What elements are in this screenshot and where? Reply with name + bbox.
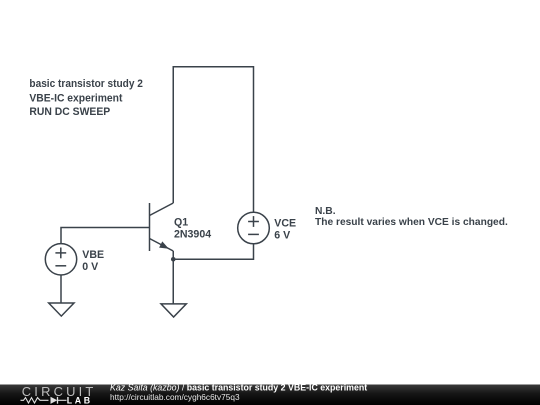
wire collector loop — [173, 67, 253, 213]
svg-text:http://circuitlab.com/cygh6c6t: http://circuitlab.com/cygh6c6tv75q3 — [110, 392, 240, 402]
ground left — [49, 303, 74, 316]
node emitter junction — [171, 257, 176, 262]
voltage source VCE — [238, 212, 270, 244]
svg-text:The result varies when VCE is: The result varies when VCE is changed. — [315, 217, 508, 228]
svg-text:VCE: VCE — [274, 218, 296, 230]
svg-text:basic transistor study 2: basic transistor study 2 — [29, 78, 143, 90]
wire emitter to ground — [172, 251, 174, 304]
voltage source VBE — [45, 244, 76, 275]
svg-text:6 V: 6 V — [274, 230, 290, 242]
label VCE value — [274, 218, 296, 242]
footer credit line — [110, 383, 367, 402]
annotation text NB — [315, 206, 508, 228]
label VBE value — [82, 249, 104, 273]
label Q1 value — [174, 217, 211, 241]
svg-text:VBE-IC experiment: VBE-IC experiment — [29, 92, 122, 104]
footer bar — [0, 385, 540, 405]
logo LAB — [67, 396, 93, 405]
svg-text:0 V: 0 V — [82, 261, 98, 273]
wire VBE top to base — [61, 228, 150, 244]
logo diode — [51, 397, 67, 404]
wire VBE bottom — [60, 275, 62, 303]
ground middle — [161, 304, 186, 317]
wire VCE bottom to node — [173, 244, 253, 259]
svg-text:RUN DC SWEEP: RUN DC SWEEP — [29, 106, 110, 118]
svg-text:Q1: Q1 — [174, 217, 188, 229]
logo CIRCUIT — [22, 384, 97, 399]
transistor Q1 — [150, 203, 174, 251]
svg-text:VBE: VBE — [82, 249, 104, 261]
svg-text:N.B.: N.B. — [315, 206, 336, 217]
logo resistor zigzag — [21, 398, 49, 403]
annotation text title — [29, 78, 143, 118]
svg-text:2N3904: 2N3904 — [174, 228, 211, 240]
svg-text:LAB: LAB — [67, 396, 93, 405]
